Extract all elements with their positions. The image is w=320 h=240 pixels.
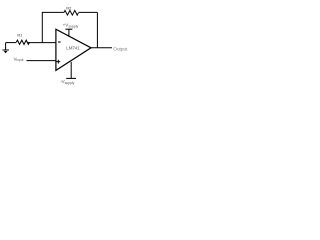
svg-text:-Vsupply: -Vsupply [60, 79, 74, 85]
svg-text:LM741: LM741 [66, 46, 80, 51]
svg-text:Output: Output [113, 46, 128, 51]
svg-text:Vinput: Vinput [14, 56, 24, 62]
svg-text:R2: R2 [66, 5, 72, 10]
svg-text:+Vsupply: +Vsupply [63, 23, 79, 29]
svg-text:R1: R1 [17, 33, 23, 38]
